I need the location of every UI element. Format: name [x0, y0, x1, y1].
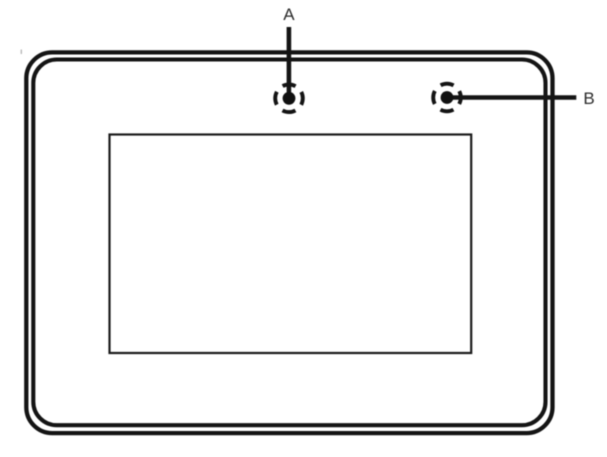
device outer bezel (inner line): [33, 60, 545, 426]
sensor B dot: [441, 91, 454, 104]
sensor A dashed ring: [275, 85, 303, 113]
sensor B dashed ring: [433, 84, 461, 112]
stray tick mark top-left: [21, 50, 22, 55]
leader line A: [287, 27, 292, 98]
svg-text:B: B: [583, 89, 594, 108]
sensor A dot: [283, 92, 296, 105]
leader line B: [447, 95, 576, 100]
screen rectangle: [110, 135, 472, 354]
svg-text:A: A: [283, 5, 295, 24]
device outer bezel (outer line): [26, 52, 552, 433]
